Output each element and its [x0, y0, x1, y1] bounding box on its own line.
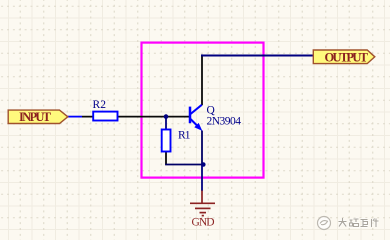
- svg-text:R1: R1: [178, 130, 191, 142]
- svg-text:OUTPUT: OUTPUT: [325, 50, 369, 64]
- svg-text:R2: R2: [93, 99, 107, 111]
- svg-text:2N3904: 2N3904: [207, 116, 242, 128]
- svg-text:GND: GND: [192, 216, 215, 228]
- svg-text:INPUT: INPUT: [19, 110, 52, 124]
